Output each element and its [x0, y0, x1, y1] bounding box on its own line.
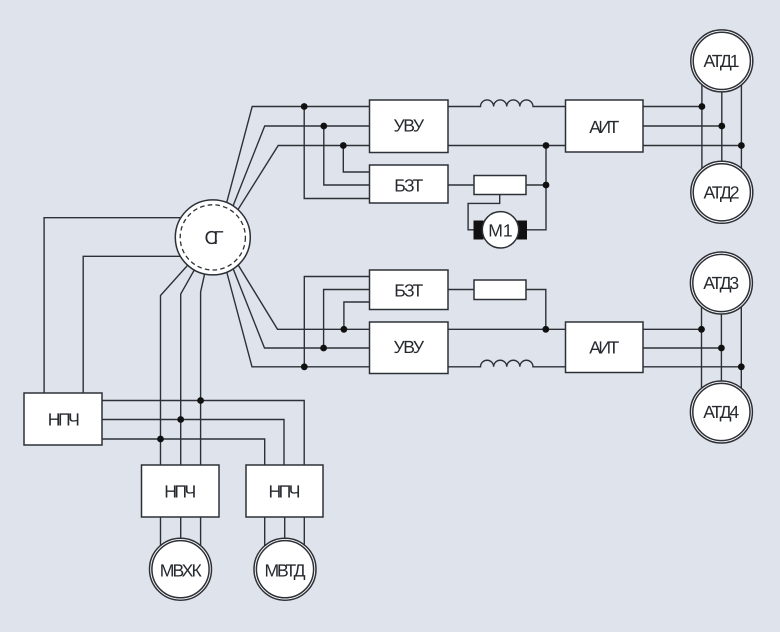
wire tap1 to BZT2	[344, 302, 370, 329]
node R2 joint	[542, 326, 549, 333]
block AIT2	[566, 322, 644, 373]
motor M1	[482, 212, 518, 248]
wire tap2 to BZT1	[324, 126, 370, 185]
wire AIT1 out3	[643, 145, 741, 147]
wire ATD1-ATD2 vertical a	[701, 62, 703, 193]
motor ATD2	[691, 161, 753, 223]
wire AIT2 out2	[643, 347, 721, 349]
wire AIT2 out1	[643, 328, 702, 330]
wire AIT1 out2	[643, 125, 722, 127]
wire phase2 SG to UVU2	[228, 256, 369, 348]
svg-text:АТД1: АТД1	[704, 51, 740, 71]
wire NPCH2 to MVHK b	[180, 517, 182, 569]
svg-text:УВУ: УВУ	[394, 337, 425, 357]
svg-text:М1: М1	[488, 220, 512, 240]
node tap1 ch2	[341, 326, 348, 333]
wire UVU1 to AIT1 bottom	[448, 145, 566, 147]
wire BZT2 to R2	[448, 289, 474, 291]
wire SG left upper to NPCH1	[44, 218, 213, 393]
svg-text:АТД3: АТД3	[703, 273, 739, 293]
wire R1 to node	[526, 184, 546, 186]
wire tap3 to BZT2	[304, 277, 369, 367]
node bottom line ch1	[543, 142, 550, 149]
wire phase3 SG to UVU1	[231, 146, 370, 222]
svg-text:АТД4: АТД4	[703, 402, 739, 422]
svg-text:БЗТ: БЗТ	[394, 281, 423, 301]
svg-text:НПЧ: НПЧ	[48, 410, 80, 430]
resistor R1	[474, 176, 526, 195]
wire ATD3-ATD4 vertical b	[720, 283, 722, 412]
svg-text:МВТД: МВТД	[265, 560, 306, 580]
wire node column to M1 right	[518, 146, 546, 230]
wire R2 to node on top line	[526, 290, 546, 330]
svg-text:БЗТ: БЗТ	[394, 175, 423, 195]
node tap2 ch2	[320, 345, 327, 352]
block NPCH1	[24, 393, 102, 445]
wire phase1 SG to UVU2	[231, 253, 370, 329]
svg-text:АТД2: АТД2	[704, 182, 740, 202]
motor MVHK	[150, 538, 212, 600]
wire phase2 SG to UVU1	[228, 126, 369, 218]
svg-text:АИТ: АИТ	[589, 117, 619, 137]
block NPCH3	[246, 465, 323, 517]
wire SG left lower to NPCH1	[83, 256, 213, 393]
node tap3 ch1	[340, 142, 347, 149]
wire AIT2 out3	[643, 366, 741, 368]
wire bus1 NPCH1 to NPCH3	[102, 401, 304, 466]
node bus1	[197, 397, 204, 404]
svg-text:УВУ: УВУ	[394, 116, 425, 136]
wire NPCH2 to MVHK a	[160, 517, 162, 569]
node R1 output	[543, 182, 550, 189]
node ATD phase c	[738, 142, 745, 149]
block BZT2	[370, 270, 449, 310]
block NPCH2	[142, 465, 220, 517]
node tap1 ch1	[301, 103, 308, 110]
wire ATD3-ATD4 vertical c	[740, 283, 742, 412]
resistor R2	[474, 280, 526, 300]
wire phase1 SG to UVU1	[223, 107, 369, 215]
node ATD phase b	[718, 123, 725, 130]
motor ATD1	[691, 30, 753, 92]
wire ATD1-ATD2 vertical c	[740, 62, 742, 193]
node ATD34 phase a	[698, 326, 705, 333]
node ATD34 phase c	[738, 363, 745, 370]
block AIT1	[566, 100, 644, 152]
wire tap3 to BZT1	[343, 146, 369, 173]
wire UVU1 to AIT1 top with inductor L1	[448, 100, 566, 107]
motor ATD3	[690, 252, 752, 314]
wire ATD3-ATD4 vertical a	[701, 283, 703, 412]
wire tap2 to BZT2	[324, 290, 370, 349]
node bus2	[177, 416, 184, 423]
svg-text:НПЧ: НПЧ	[164, 482, 196, 502]
svg-text:АИТ: АИТ	[589, 337, 619, 357]
block UVU2	[370, 322, 449, 374]
generator SG	[175, 200, 250, 275]
wire UVU2 to AIT2 top	[448, 328, 566, 330]
node ATD phase a	[699, 103, 706, 110]
wire SG down b to NPCH2	[181, 237, 213, 465]
wire tap1 to BZT1	[304, 107, 369, 199]
wire bus2 NPCH1 to NPCH3	[102, 420, 284, 466]
block BZT1	[370, 165, 449, 203]
wire R1 bottom to M1 left	[468, 195, 500, 230]
block UVU1	[370, 100, 449, 153]
wire BZT1 to R1	[448, 184, 474, 186]
motor M1 brushes	[474, 221, 528, 240]
wire SG down c to NPCH2	[161, 237, 213, 465]
wire NPCH3 to MVTD b	[284, 517, 286, 569]
wire SG down a to NPCH2	[201, 237, 213, 465]
wire phase3 SG to UVU2	[223, 260, 369, 367]
wire bus3 NPCH1 to NPCH3	[102, 439, 265, 465]
node ATD34 phase b	[718, 345, 725, 352]
node tap2 ch1	[320, 123, 327, 130]
wire NPCH3 to MVTD c	[303, 517, 305, 569]
node bus3	[157, 436, 164, 443]
wire AIT1 out1	[643, 106, 702, 108]
wire ATD1-ATD2 vertical b	[721, 62, 723, 193]
motor MVTD	[254, 538, 316, 600]
svg-text:МВХК: МВХК	[160, 560, 203, 580]
node tap3 ch2	[301, 363, 308, 370]
motor ATD4	[690, 381, 752, 443]
svg-text:НПЧ: НПЧ	[269, 482, 301, 502]
wire NPCH3 to MVTD a	[264, 517, 266, 569]
svg-text:СГ: СГ	[205, 227, 224, 248]
wire NPCH2 to MVHK c	[200, 517, 202, 569]
wire UVU2 to AIT2 bottom with inductor L2	[448, 360, 566, 367]
